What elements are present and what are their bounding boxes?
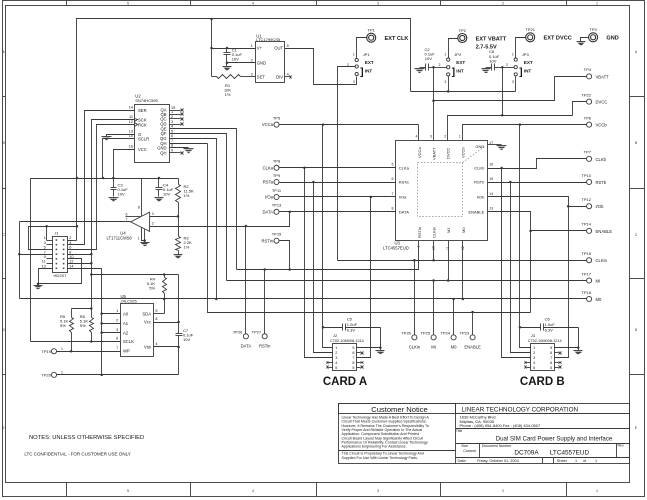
svg-text:DATA: DATA bbox=[399, 210, 409, 215]
svg-text:1: 1 bbox=[459, 135, 461, 139]
ground below C3 bbox=[109, 198, 118, 203]
ground at U3 GND bbox=[499, 144, 502, 146]
svg-text:Phone : (408) 954-8400 Fax :: Phone : (408) 954-8400 Fax : (408) 434-0… bbox=[460, 423, 541, 428]
svg-text:ENABLE: ENABLE bbox=[469, 210, 485, 215]
svg-text:GND: GND bbox=[606, 36, 618, 42]
svg-text:13: 13 bbox=[129, 130, 133, 134]
J1 pin 8 bbox=[68, 254, 73, 256]
wire J1 pin8 stub bbox=[68, 254, 92, 256]
svg-text:TP13: TP13 bbox=[272, 203, 282, 208]
J1 pin 7 bbox=[47, 254, 53, 256]
test point TP17 bbox=[587, 278, 592, 283]
svg-text:VBATT: VBATT bbox=[596, 74, 610, 79]
wire U1 V+ riser bbox=[211, 19, 213, 77]
test point TP12 bbox=[587, 204, 592, 209]
svg-text:RSTa: RSTa bbox=[263, 180, 274, 185]
svg-text:LTC CONFIDENTIAL - FOR CUSTOME: LTC CONFIDENTIAL - FOR CUSTOMER USE ONLY bbox=[24, 452, 130, 457]
svg-text:7: 7 bbox=[116, 346, 118, 350]
svg-text:DC709A: DC709A bbox=[514, 449, 539, 456]
wire I/Oa riser to J2 pin7 bbox=[357, 197, 371, 358]
svg-text:J3: J3 bbox=[531, 333, 536, 338]
wire U2 QF to MI line bbox=[170, 134, 227, 281]
title block frame bbox=[339, 404, 630, 464]
test point TP22 bbox=[587, 99, 592, 104]
wire I/Ob riser to J3 pin7 bbox=[555, 207, 569, 358]
svg-text:10V: 10V bbox=[163, 192, 170, 197]
J2 pin S no-connect right bbox=[357, 367, 361, 369]
svg-text:1: 1 bbox=[116, 309, 118, 313]
svg-text:12: 12 bbox=[129, 120, 133, 124]
svg-text:C: C bbox=[635, 233, 638, 237]
svg-text:TP25: TP25 bbox=[421, 330, 431, 335]
U3 top pin VCCa (4) bbox=[418, 125, 420, 141]
J1 pin 11 bbox=[47, 263, 53, 265]
svg-text:QH: QH bbox=[160, 151, 166, 156]
svg-text:E: E bbox=[3, 426, 5, 430]
test point TP6 bbox=[587, 122, 592, 127]
svg-text:8: 8 bbox=[392, 207, 394, 211]
test point TP26 CLKin bbox=[412, 335, 417, 340]
svg-text:Document Number: Document Number bbox=[482, 444, 512, 448]
J1 pin 4 bbox=[68, 244, 73, 246]
svg-text:3: 3 bbox=[44, 241, 46, 245]
svg-text:6: 6 bbox=[171, 134, 173, 138]
svg-text:5%: 5% bbox=[149, 286, 155, 291]
svg-text:EXT DVCC: EXT DVCC bbox=[544, 36, 572, 42]
junction CLKa to card A bbox=[303, 167, 306, 170]
resistor R3 bbox=[178, 217, 180, 237]
wire U5 Vcc rail bbox=[92, 274, 179, 276]
svg-text:MI: MI bbox=[431, 344, 436, 349]
svg-text:WP: WP bbox=[123, 348, 130, 353]
svg-text:1: 1 bbox=[512, 52, 514, 56]
svg-text:VCCb: VCCb bbox=[596, 123, 608, 128]
svg-text:VBATT: VBATT bbox=[432, 147, 437, 160]
ground below C1 bbox=[226, 63, 228, 67]
wire RSTin line bbox=[237, 241, 419, 270]
svg-text:8: 8 bbox=[138, 205, 140, 209]
svg-text:V+: V+ bbox=[257, 46, 263, 51]
svg-text:RSTb: RSTb bbox=[596, 180, 607, 185]
svg-text:5: 5 bbox=[392, 163, 394, 167]
svg-text:TP3: TP3 bbox=[589, 27, 597, 32]
junction I/Ob card riser bbox=[567, 205, 570, 208]
svg-text:SER: SER bbox=[138, 108, 147, 113]
svg-text:1: 1 bbox=[353, 52, 355, 56]
svg-text:1: 1 bbox=[61, 347, 63, 351]
svg-text:Rev: Rev bbox=[618, 444, 624, 448]
wire DVCC riser bbox=[502, 68, 504, 116]
wire CLKin line bbox=[338, 260, 587, 262]
resistor R6 bbox=[91, 309, 93, 318]
svg-text:4: 4 bbox=[287, 73, 289, 77]
test point TP11 bbox=[274, 194, 279, 199]
U2 QA no-connect bbox=[170, 110, 181, 112]
wire U1 OUT to JP1 INT bbox=[285, 49, 357, 85]
junction RSTb card riser bbox=[509, 181, 512, 184]
svg-text:6.3V: 6.3V bbox=[347, 327, 356, 332]
resistor R2 bbox=[178, 179, 180, 185]
svg-text:I/Oa: I/Oa bbox=[399, 195, 407, 200]
svg-text:]: ] bbox=[360, 67, 363, 78]
wire U2 QE to RSTin line bbox=[170, 129, 237, 270]
svg-text:Customer Notice: Customer Notice bbox=[371, 405, 428, 414]
svg-text:TP23: TP23 bbox=[460, 330, 470, 335]
svg-text:TP1: TP1 bbox=[368, 28, 376, 33]
wire VCCa line bbox=[280, 124, 419, 126]
svg-text:RSTin: RSTin bbox=[262, 238, 274, 243]
customer notice header bbox=[339, 404, 456, 414]
svg-text:C702-10M008-1214: C702-10M008-1214 bbox=[330, 339, 364, 343]
node V+ junction bbox=[210, 47, 213, 50]
svg-text:HD2X7: HD2X7 bbox=[54, 273, 68, 278]
svg-text:CLKa: CLKa bbox=[399, 166, 410, 171]
svg-text:8: 8 bbox=[69, 250, 71, 254]
svg-text:A: A bbox=[635, 50, 638, 54]
connector J3 box bbox=[531, 344, 555, 371]
svg-text:NOTES: UNLESS OTHERWISE SPECIF: NOTES: UNLESS OTHERWISE SPECIFIED bbox=[29, 435, 144, 441]
svg-text:5: 5 bbox=[533, 366, 535, 370]
svg-text:3: 3 bbox=[444, 80, 446, 84]
svg-text:EXT VBATT: EXT VBATT bbox=[476, 36, 507, 42]
svg-text:7: 7 bbox=[352, 356, 354, 360]
svg-text:11: 11 bbox=[42, 260, 46, 264]
test point TP10 bbox=[587, 179, 592, 184]
capacitor C7 riser bbox=[178, 275, 180, 334]
capacitor C6 bbox=[520, 327, 541, 329]
test point TP25 MI bbox=[431, 335, 436, 340]
svg-text:MI: MI bbox=[596, 279, 601, 284]
wire TP26 CLKin drop bbox=[414, 261, 416, 335]
J3 pin S no-connect left bbox=[527, 367, 531, 369]
wire U2 SCLR to VCC rail bbox=[103, 139, 135, 179]
svg-text:Friday, October 01, 2004: Friday, October 01, 2004 bbox=[477, 459, 519, 463]
svg-text:CARD A: CARD A bbox=[323, 376, 367, 388]
wire J1 pin13 ground net bbox=[39, 259, 82, 284]
capacitor C2 bbox=[425, 64, 427, 71]
svg-text:RCK: RCK bbox=[138, 122, 147, 127]
wire ENABLE line bbox=[208, 144, 531, 313]
J2 pin6 no-connect bbox=[357, 352, 361, 354]
svg-text:TP20: TP20 bbox=[41, 373, 51, 378]
U2 QH' no-connect bbox=[170, 152, 181, 154]
svg-text:B: B bbox=[635, 141, 637, 145]
svg-text:TP17: TP17 bbox=[581, 271, 591, 276]
svg-text:M0: M0 bbox=[461, 227, 466, 233]
svg-text:3: 3 bbox=[430, 135, 432, 139]
svg-text:6: 6 bbox=[392, 177, 394, 181]
svg-text:1: 1 bbox=[596, 2, 598, 6]
svg-text:GND: GND bbox=[257, 60, 266, 65]
wire I/Ob to TP12 bbox=[488, 197, 587, 207]
svg-text:2: 2 bbox=[251, 59, 253, 63]
svg-text:16: 16 bbox=[489, 163, 493, 167]
jumper JP2 bbox=[434, 67, 447, 69]
svg-text:ENABLE: ENABLE bbox=[596, 229, 613, 234]
svg-text:3: 3 bbox=[171, 120, 173, 124]
svg-text:TP24: TP24 bbox=[441, 330, 451, 335]
svg-text:14: 14 bbox=[489, 192, 493, 196]
junction C8/JP3 bbox=[501, 66, 504, 69]
svg-text:Date:: Date: bbox=[458, 459, 467, 463]
J1 pin 2 bbox=[68, 240, 73, 242]
wire TP26 DATA drop bbox=[245, 227, 247, 334]
wire VBATT riser to U3 pin3 bbox=[433, 68, 435, 141]
wire TP1 to JP1 pin1 bbox=[357, 38, 367, 59]
svg-text:2: 2 bbox=[502, 2, 504, 6]
svg-text:A2: A2 bbox=[123, 330, 129, 335]
wire JP3 pin3 to INT power rail bbox=[515, 77, 517, 92]
wire CLKb to TP7 bbox=[488, 159, 587, 169]
svg-text:SCLK: SCLK bbox=[123, 339, 134, 344]
border zone ticks top bbox=[66, 1, 68, 6]
svg-text:4: 4 bbox=[533, 361, 535, 365]
svg-text:5: 5 bbox=[352, 346, 354, 350]
wire TP27 RSTin drop bbox=[264, 270, 266, 334]
svg-text:B: B bbox=[3, 141, 5, 145]
wire U3 M0 pin riser bbox=[462, 241, 464, 299]
svg-text:CLKa: CLKa bbox=[263, 165, 274, 170]
J1 pin 9 bbox=[47, 258, 53, 260]
svg-text:I/Ob: I/Ob bbox=[477, 195, 485, 200]
U3 exposed pad dashed bbox=[418, 163, 463, 217]
svg-text:3: 3 bbox=[353, 80, 355, 84]
svg-text:2: 2 bbox=[335, 351, 337, 355]
svg-text:I/Ob: I/Ob bbox=[596, 204, 605, 209]
wire U3 CLKin pin riser bbox=[433, 241, 435, 261]
svg-text:ENABLE: ENABLE bbox=[464, 344, 481, 349]
svg-text:VCCa: VCCa bbox=[262, 122, 274, 127]
ground at TP3 bbox=[581, 38, 589, 42]
svg-text:JP3: JP3 bbox=[522, 52, 530, 57]
wire JP2 pin3 to INT power rail bbox=[448, 77, 450, 92]
svg-text:1: 1 bbox=[596, 489, 598, 493]
test point TP8 bbox=[274, 165, 279, 170]
J1 pin 5 bbox=[47, 249, 53, 251]
svg-text:TP4: TP4 bbox=[584, 67, 592, 72]
svg-text:5: 5 bbox=[335, 366, 337, 370]
wire ENABLE to TP14 bbox=[488, 212, 587, 231]
wire TP21 to JP3 pin1 bbox=[516, 38, 526, 59]
wire RSTb to TP10 bbox=[488, 182, 587, 184]
svg-text:Size: Size bbox=[461, 444, 468, 448]
J1 pin 3 bbox=[47, 244, 53, 246]
svg-text:7: 7 bbox=[392, 192, 394, 196]
comparator U4 LT1711CMS8 bbox=[131, 212, 150, 231]
svg-text:1: 1 bbox=[251, 44, 253, 48]
svg-text:TP16: TP16 bbox=[581, 251, 591, 256]
svg-text:D: D bbox=[2, 328, 5, 332]
svg-text:14: 14 bbox=[129, 105, 133, 109]
svg-text:14: 14 bbox=[69, 265, 73, 269]
oscillator U1 box bbox=[256, 42, 285, 83]
svg-text:DVCC: DVCC bbox=[446, 148, 451, 159]
svg-text:10V: 10V bbox=[183, 337, 190, 342]
svg-text:]: ] bbox=[452, 67, 455, 78]
svg-text:J2: J2 bbox=[333, 333, 338, 338]
svg-text:EXT: EXT bbox=[524, 60, 533, 65]
svg-text:Sheet: Sheet bbox=[557, 459, 568, 463]
wire RSTa riser to J2 pin2 bbox=[314, 183, 333, 353]
svg-text:TP27: TP27 bbox=[252, 329, 262, 334]
border zone ticks right bbox=[630, 96, 645, 98]
wire I/Oa line bbox=[280, 196, 396, 198]
wire J1 pin2 to VCC riser bbox=[68, 240, 77, 242]
svg-text:]: ] bbox=[519, 67, 522, 78]
svg-text:Vss: Vss bbox=[144, 345, 151, 350]
svg-text:TP6: TP6 bbox=[584, 115, 592, 120]
wire TP24 M0 drop bbox=[453, 299, 455, 335]
svg-text:1%: 1% bbox=[184, 245, 190, 250]
capacitor C1 bbox=[226, 47, 229, 50]
test point TP9 bbox=[274, 179, 279, 184]
junction VBATT line bbox=[432, 100, 435, 103]
wire J1 pins 1/5 net bbox=[29, 227, 47, 250]
test point TP19 bbox=[51, 349, 56, 354]
svg-text:6: 6 bbox=[69, 246, 71, 250]
junction top rail to U1 V+ bbox=[210, 18, 213, 21]
wire VCCb riser to J3 pin1 bbox=[520, 125, 531, 348]
jumper JP1 bbox=[355, 58, 358, 61]
test point TP13 bbox=[274, 209, 279, 214]
svg-text:4: 4 bbox=[69, 241, 71, 245]
svg-text:3: 3 bbox=[116, 328, 118, 332]
J3 pin S no-connect right bbox=[555, 367, 559, 369]
svg-text:7: 7 bbox=[171, 139, 173, 143]
svg-text:Supplied For Use With Linear T: Supplied For Use With Linear Technology … bbox=[342, 456, 418, 460]
svg-text:6: 6 bbox=[550, 351, 552, 355]
svg-text:5: 5 bbox=[155, 309, 157, 313]
J3 pin8 no-connect bbox=[555, 362, 559, 364]
U2 QB no-connect bbox=[170, 114, 181, 116]
svg-text:OUT: OUT bbox=[274, 46, 283, 51]
test point TP2 bbox=[458, 34, 467, 43]
J3 pin4 no-connect bbox=[527, 362, 531, 364]
svg-text:1: 1 bbox=[595, 459, 597, 463]
svg-text:M0: M0 bbox=[596, 297, 602, 302]
capacitor C8 bbox=[491, 64, 493, 71]
svg-text:8: 8 bbox=[352, 361, 354, 365]
IC U3 LTC4557EUD box bbox=[396, 141, 488, 241]
wire J2 pin5 ground bbox=[357, 328, 381, 348]
wire J1 pin14 to U5 address pins bbox=[68, 269, 102, 375]
svg-text:J1: J1 bbox=[54, 231, 59, 236]
test point TP3 bbox=[589, 33, 598, 42]
svg-text:M0: M0 bbox=[451, 344, 457, 349]
svg-text:RSTa: RSTa bbox=[399, 180, 410, 185]
svg-text:DVCC: DVCC bbox=[596, 100, 608, 105]
svg-text:TP15: TP15 bbox=[272, 232, 282, 237]
svg-text:1: 1 bbox=[575, 459, 577, 463]
svg-text:1%: 1% bbox=[184, 193, 190, 198]
junction I/Oa to card A bbox=[370, 196, 373, 199]
svg-text:GND: GND bbox=[475, 144, 484, 149]
svg-text:3: 3 bbox=[512, 80, 514, 84]
test point TP21 bbox=[526, 33, 535, 42]
svg-text:EXT: EXT bbox=[456, 60, 465, 65]
resistor R5 bbox=[71, 309, 73, 318]
svg-text:RSTin: RSTin bbox=[259, 343, 271, 348]
junction VCCb card riser bbox=[519, 123, 522, 126]
wire INT power rail bbox=[411, 91, 516, 93]
wire JP1 pin2 to CLKin line bbox=[338, 67, 356, 261]
svg-text:1: 1 bbox=[138, 236, 140, 240]
svg-text:INT: INT bbox=[456, 68, 464, 73]
svg-text:1: 1 bbox=[44, 236, 46, 240]
svg-text:2: 2 bbox=[502, 489, 504, 493]
wire CLKa line bbox=[280, 167, 396, 169]
svg-text:1: 1 bbox=[444, 52, 446, 56]
svg-text:VCCb: VCCb bbox=[460, 147, 465, 158]
svg-text:RSTin: RSTin bbox=[417, 227, 422, 238]
J3 pin6 no-connect bbox=[555, 352, 559, 354]
svg-text:TP10: TP10 bbox=[581, 173, 591, 178]
svg-text:LTC1799CS5: LTC1799CS5 bbox=[256, 37, 281, 42]
wire SCLK line bbox=[31, 341, 121, 343]
svg-text:SDA: SDA bbox=[142, 311, 151, 316]
svg-text:12: 12 bbox=[69, 260, 73, 264]
svg-text:TP18: TP18 bbox=[581, 290, 591, 295]
svg-text:10V: 10V bbox=[232, 57, 239, 62]
svg-text:TP9: TP9 bbox=[273, 173, 281, 178]
svg-text:9: 9 bbox=[44, 255, 46, 259]
ground below R3 bbox=[173, 255, 182, 260]
wire VCC top rail bbox=[77, 19, 411, 241]
svg-text:2: 2 bbox=[152, 222, 154, 226]
J1 pin 13 bbox=[47, 268, 53, 270]
J1 pin 6 bbox=[68, 249, 73, 251]
svg-text:CARD B: CARD B bbox=[520, 376, 565, 388]
svg-text:RSTb: RSTb bbox=[474, 180, 485, 185]
IC U5 24LC025 box bbox=[121, 304, 154, 357]
svg-text:8: 8 bbox=[155, 317, 157, 321]
svg-text:9: 9 bbox=[417, 246, 421, 248]
J2 pin S no-connect left bbox=[329, 367, 333, 369]
svg-text:7: 7 bbox=[126, 218, 128, 222]
svg-text:7: 7 bbox=[550, 356, 552, 360]
svg-text:TP26: TP26 bbox=[233, 329, 243, 334]
test point TP24 M0 bbox=[451, 335, 456, 340]
wire TP15 to RSTin line bbox=[280, 241, 290, 270]
U2 QD no-connect bbox=[170, 124, 181, 126]
wire M0 line bbox=[20, 298, 587, 300]
wire DATA drop to comparator line bbox=[150, 212, 290, 227]
wire TP20 to Vss bbox=[57, 374, 179, 376]
svg-text:JP1: JP1 bbox=[363, 52, 371, 57]
junction DATA drop bbox=[288, 211, 291, 214]
test point TP26 DATA bbox=[243, 334, 248, 339]
svg-text:2: 2 bbox=[439, 63, 441, 67]
wire R5 R6 top rail bbox=[72, 308, 92, 310]
svg-text:TP11: TP11 bbox=[272, 188, 282, 193]
wire U2 RCK to J1 pin6 bbox=[68, 125, 135, 250]
svg-text:4: 4 bbox=[252, 2, 254, 6]
svg-text:5: 5 bbox=[550, 366, 552, 370]
J1 pin 12 bbox=[68, 263, 73, 265]
svg-text:CLKb: CLKb bbox=[474, 166, 485, 171]
svg-text:SET: SET bbox=[257, 74, 266, 79]
svg-text:TP8: TP8 bbox=[273, 159, 281, 164]
svg-text:5: 5 bbox=[171, 129, 173, 133]
junction CLKb card riser bbox=[500, 167, 503, 170]
svg-text:SCLR: SCLR bbox=[138, 137, 149, 142]
svg-text:C5: C5 bbox=[347, 317, 353, 322]
svg-text:3: 3 bbox=[335, 356, 337, 360]
U4 pin 6 stub bbox=[126, 216, 141, 218]
svg-text:LTC4557EUD: LTC4557EUD bbox=[383, 245, 409, 250]
svg-text:INT: INT bbox=[524, 68, 532, 73]
svg-text:TP5: TP5 bbox=[273, 115, 281, 120]
